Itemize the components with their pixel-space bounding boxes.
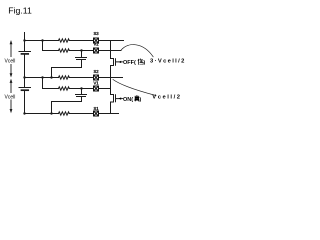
svg-text:Vcell: Vcell: [5, 95, 16, 101]
svg-text:OFF(: OFF(: [123, 60, 136, 66]
svg-text:S3: S3: [93, 31, 99, 36]
svg-text:Fig.11: Fig.11: [8, 6, 32, 16]
svg-text:ON(: ON(: [123, 97, 133, 103]
svg-text:): ): [139, 97, 141, 103]
svg-text:S1: S1: [93, 106, 99, 111]
svg-text:V1: V1: [93, 80, 99, 85]
svg-text:S2: S2: [93, 69, 99, 74]
svg-text:V2: V2: [93, 41, 99, 46]
svg-text:3·Vcell/2: 3·Vcell/2: [150, 59, 186, 65]
svg-text:Vcell/2: Vcell/2: [152, 95, 181, 101]
svg-text:): ): [143, 60, 145, 66]
svg-text:Vcell: Vcell: [5, 59, 16, 65]
